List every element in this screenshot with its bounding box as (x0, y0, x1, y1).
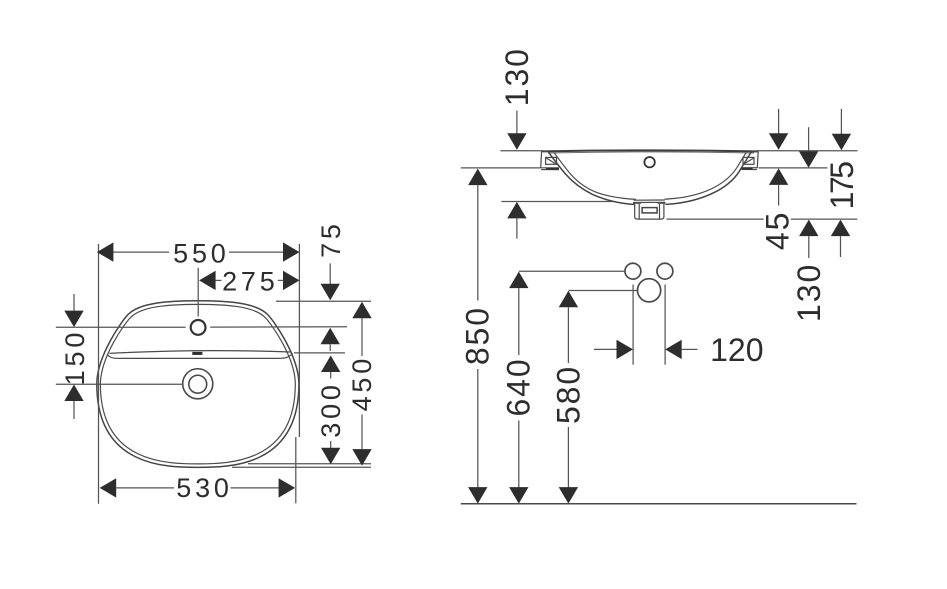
dim 640 bottom arrow (509, 487, 528, 504)
bowl bottom lines crossing over drain (634, 199, 665, 201)
ledge upper line (110, 351, 291, 354)
dim 150 down arrow (64, 311, 83, 328)
dim 450 bottom arrow (352, 449, 371, 466)
floor line (461, 503, 857, 505)
bowl bottom extension line left (501, 201, 613, 203)
dim 530 right arrow (279, 478, 296, 497)
svg-text:120: 120 (710, 332, 763, 368)
dim 850 bottom stem (477, 369, 479, 488)
bracket bottom line right (759, 167, 828, 169)
svg-text:275: 275 (222, 266, 278, 296)
dim 130 top down arrow (507, 133, 526, 150)
faucet center line left (56, 326, 186, 328)
right extension vertical upper (550) (298, 244, 300, 437)
dim 300 bottom stem (330, 441, 332, 449)
dim 450 bottom stem (361, 415, 363, 450)
dim 75 stem top (329, 263, 331, 284)
dim 275 line left stub (215, 279, 221, 281)
drain outer circle (183, 369, 213, 399)
ledge lower line (107, 353, 292, 358)
svg-text:850: 850 (460, 306, 496, 365)
svg-text:530: 530 (176, 473, 232, 503)
drain center line (56, 383, 183, 385)
dim 275 line (278, 279, 284, 281)
dim 530 left arrow (100, 478, 117, 497)
bowl outer wall left (548, 152, 634, 205)
dim 550 left arrow (97, 242, 114, 261)
dim 75 up arrow (321, 328, 340, 345)
left extension vertical (98, 244, 100, 504)
dim 850 bottom arrow (468, 487, 487, 504)
dim 45 top stem (778, 109, 780, 134)
basin bottom extension line lower (232, 466, 371, 468)
right extension vertical lower (530) (295, 437, 297, 503)
dim 130 right up arrow (799, 220, 818, 237)
supply circle left (625, 263, 641, 279)
dim 120 left arrow (617, 340, 634, 359)
left wall bracket (541, 151, 559, 168)
bowl inner wall right (665, 152, 747, 199)
rim secondary line (548, 152, 754, 153)
dim 580 bottom stem (567, 427, 569, 488)
dim 640 bottom stem (518, 421, 520, 488)
dim 130 right stem (808, 236, 810, 258)
dim 175 bottom stem (840, 236, 842, 257)
dim 130 top stem (516, 111, 518, 134)
RIGHT VIEW (front view of washbasin) (460, 47, 860, 504)
faucet hole (front view) (644, 157, 654, 167)
dim 120 right stem (682, 348, 698, 350)
dim 550 right arrow (283, 242, 300, 261)
dim 580 top arrow (559, 291, 578, 308)
svg-text:45: 45 (759, 211, 795, 250)
dim 45 down arrow (769, 133, 788, 150)
dim 300 top arrow (321, 356, 340, 373)
dim 130 right top stem (808, 127, 810, 151)
dim 150 bottom stem (73, 401, 75, 419)
dim 640 top stem (518, 288, 520, 355)
dim 130 right down arrow (799, 151, 818, 168)
right wall bracket (741, 151, 758, 167)
svg-text:640: 640 (501, 357, 537, 416)
drain bottom line (left of text gap) (667, 218, 764, 220)
drain connection circle (638, 279, 661, 302)
bracket bottom line left (461, 167, 541, 169)
dim 45 up arrow (769, 168, 788, 185)
drain inner circle (189, 375, 207, 393)
svg-text:150: 150 (60, 329, 90, 385)
leader line 640 level (519, 270, 625, 272)
dim 150 top stem (73, 294, 75, 311)
dim 175 up arrow (831, 220, 850, 237)
dim 175 top stem (840, 109, 842, 134)
svg-text:175: 175 (824, 162, 860, 210)
rim extension right (757, 150, 858, 152)
dim 275 left arrow (199, 271, 216, 290)
dim 275 right arrow (283, 271, 300, 290)
bowl inner wall left (554, 152, 636, 199)
dim 150 up arrow (64, 385, 83, 402)
dim 130 top bottom stem (516, 218, 518, 238)
dim 175 down arrow (832, 134, 851, 151)
svg-text:130: 130 (791, 263, 827, 322)
dim 580 bottom arrow (559, 487, 578, 504)
svg-text:75: 75 (316, 220, 346, 258)
dim 580 top stem (567, 307, 569, 363)
LEFT VIEW (top view of washbasin) (56, 220, 377, 504)
dim 75 down arrow (321, 284, 340, 301)
drain fitting (635, 203, 664, 219)
dim 450 top arrow (352, 302, 371, 319)
svg-text:130: 130 (499, 47, 535, 106)
rim extension left (500, 150, 543, 152)
svg-text:300: 300 (316, 381, 346, 437)
leader line 580 level (569, 290, 638, 292)
basin top extension line (276, 300, 371, 302)
dim 120 right arrow (665, 340, 682, 359)
dim 75 stem bottom (329, 344, 331, 351)
basin inner outline (top view) (100, 304, 295, 464)
dim 530 line (116, 487, 174, 489)
faucet center line right (210, 326, 347, 328)
dim 300 top stem (330, 372, 332, 379)
vertical line under left supply (632, 285, 634, 365)
dim 300 bottom arrow (321, 448, 340, 465)
dim 550 line (113, 251, 169, 253)
dim 640 top arrow (509, 272, 528, 289)
rim top line (543, 150, 757, 151)
vertical line under right supply (664, 285, 666, 365)
faucet hole (top view) (191, 320, 206, 335)
drain bottom line (right of text gap) (791, 218, 858, 220)
dim 120 left stem (594, 348, 617, 350)
dim 45 bottom stem (778, 185, 780, 206)
svg-text:580: 580 (551, 365, 587, 424)
supply circle right (657, 263, 673, 279)
basin outer outline (top view) (97, 301, 299, 468)
vertical stub for 275 (197, 268, 199, 317)
overflow tick (192, 352, 202, 355)
dim 850 top arrow (468, 169, 487, 186)
dim 850 top stem (477, 185, 479, 300)
svg-text:450: 450 (347, 355, 377, 411)
svg-text:550: 550 (173, 238, 229, 268)
dim 130 top up arrow (507, 202, 526, 219)
bowl outer wall right (666, 152, 752, 205)
ledge extension line (294, 352, 345, 354)
basin bottom extension line upper (248, 463, 371, 465)
dim 450 top stem (361, 318, 363, 356)
